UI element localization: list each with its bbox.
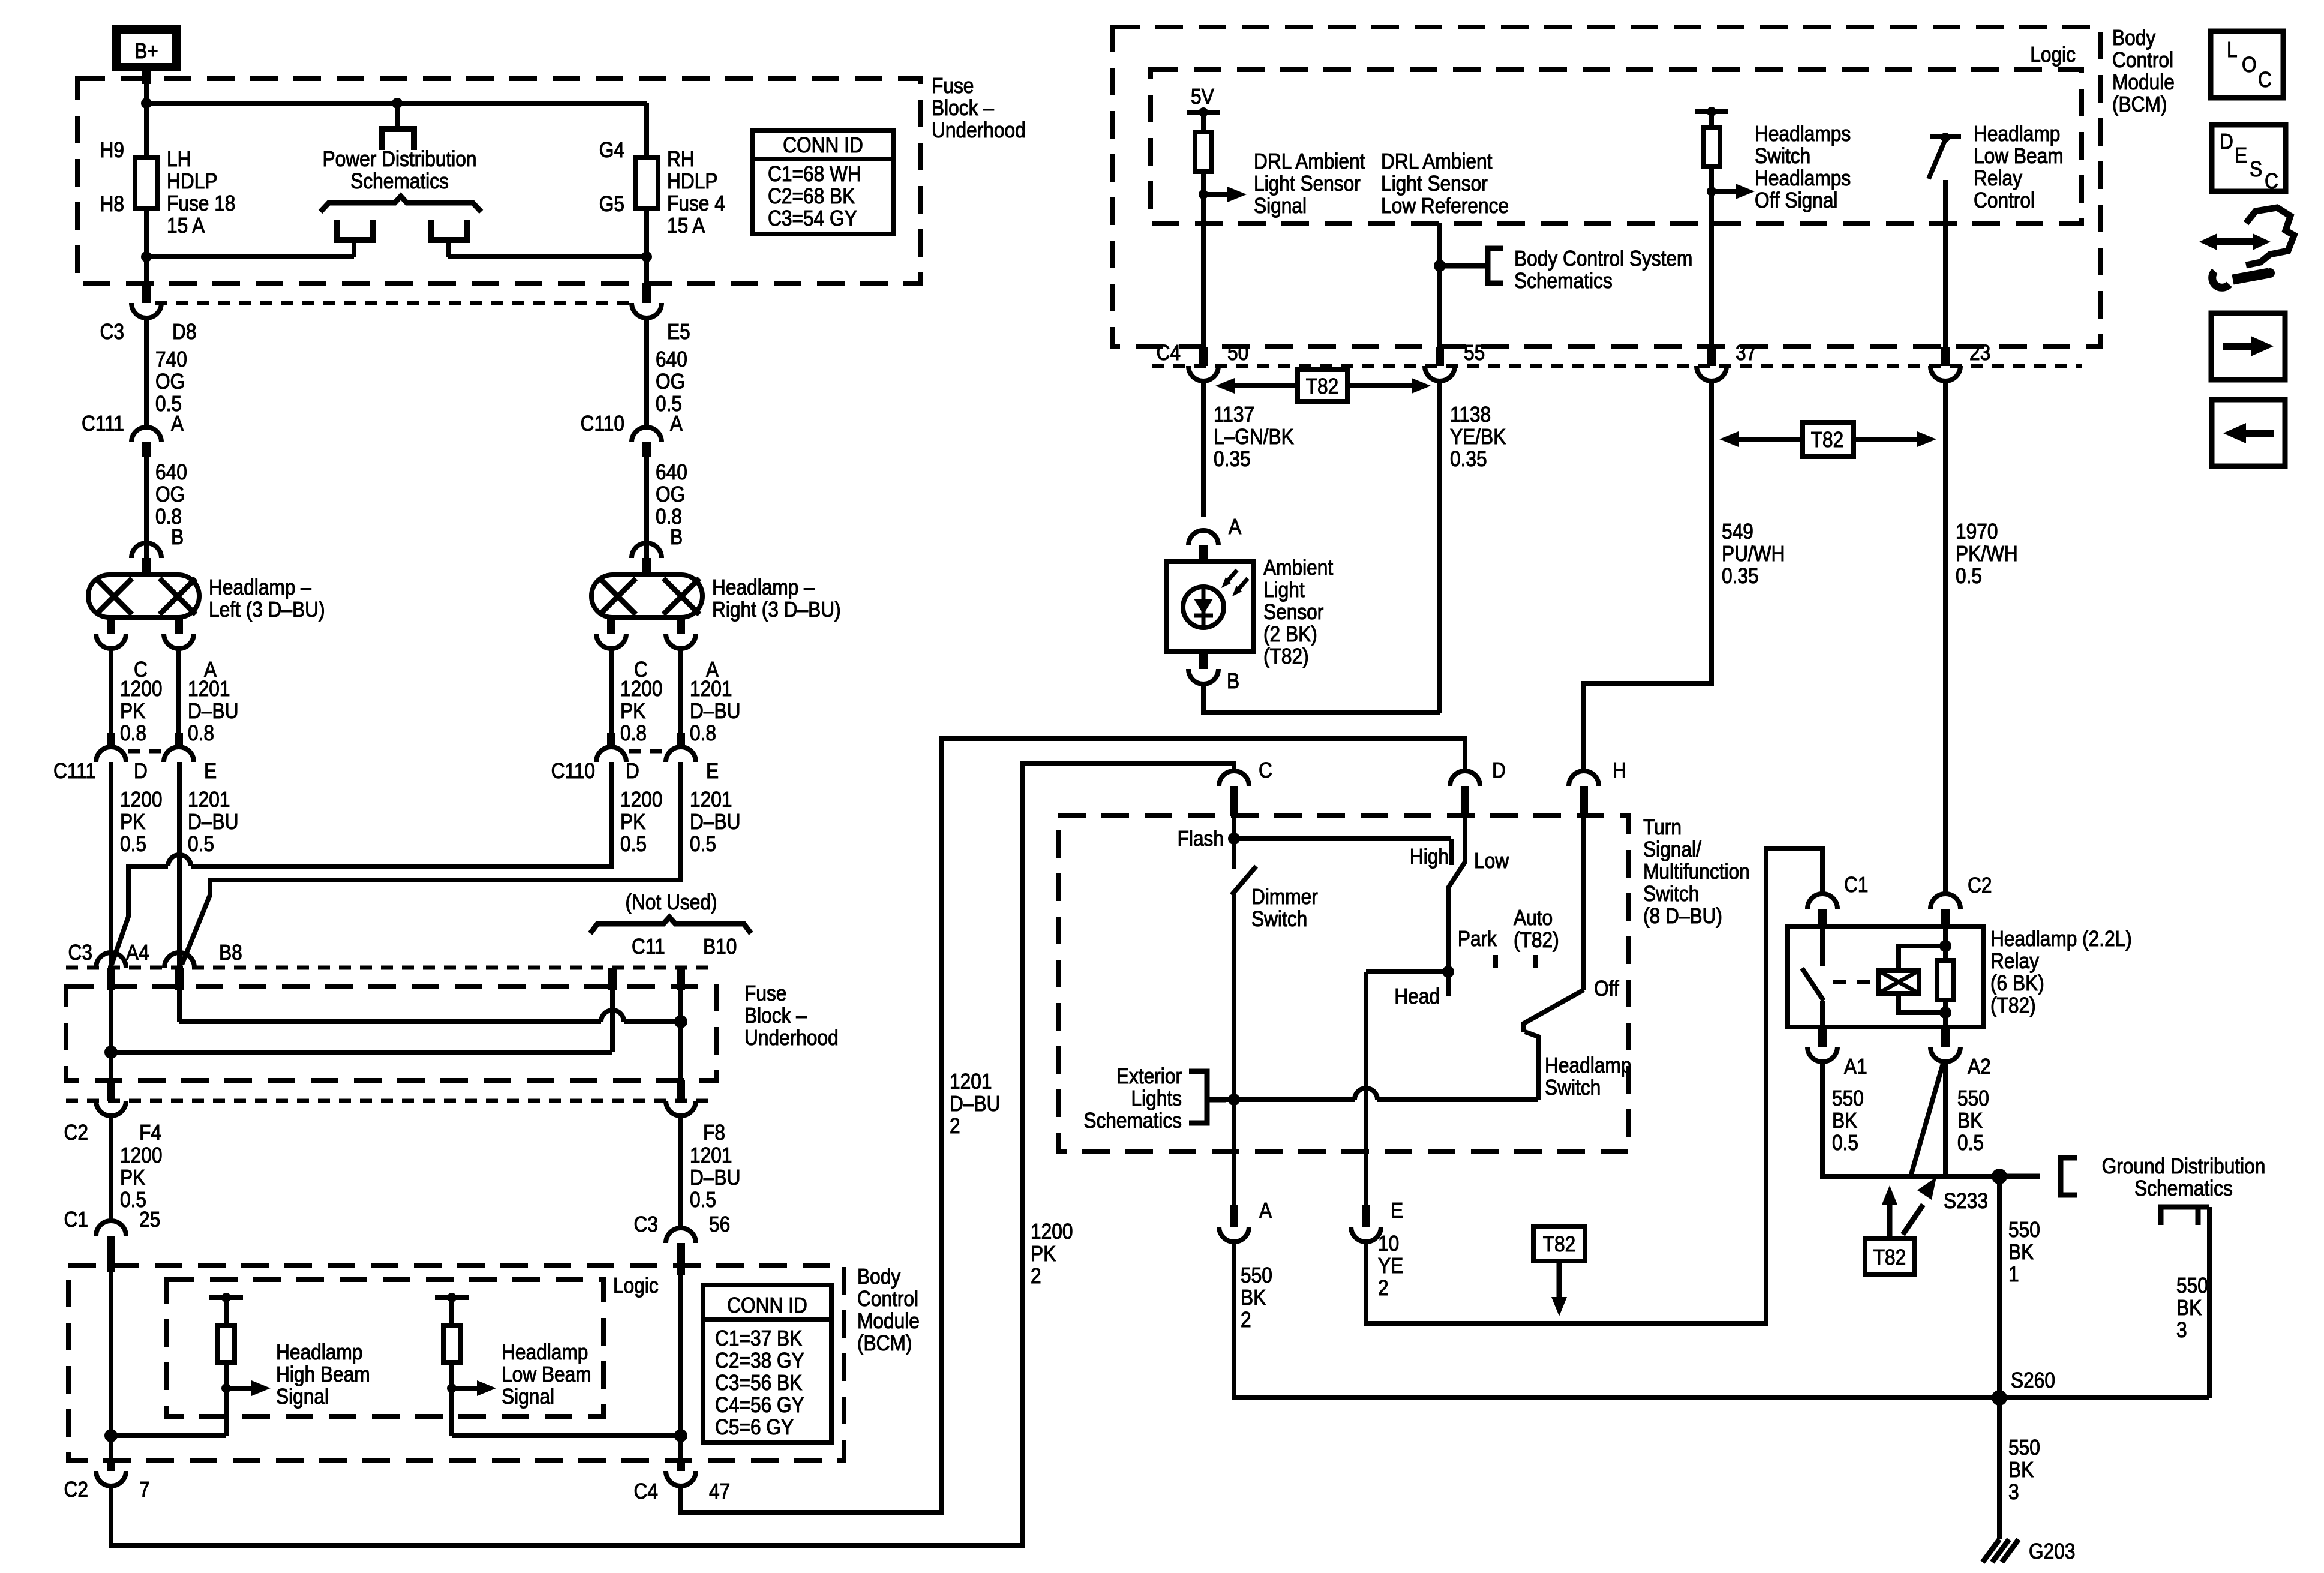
- svg-text:0.8: 0.8: [120, 721, 146, 745]
- svg-text:Lights: Lights: [1131, 1086, 1182, 1110]
- svg-text:A: A: [171, 412, 184, 436]
- svg-text:640: 640: [656, 460, 687, 484]
- svg-text:BK: BK: [1241, 1286, 1266, 1310]
- wire 550 BK 3 to ground: [1999, 1398, 2040, 1539]
- svg-text:(6 BK): (6 BK): [1990, 971, 2044, 995]
- svg-text:37: 37: [1736, 341, 1756, 365]
- svg-text:(BCM): (BCM): [857, 1331, 912, 1355]
- svg-text:S: S: [2250, 157, 2262, 181]
- headlamp switch label: [1545, 1053, 1631, 1100]
- svg-text:Headlamp: Headlamp: [1974, 122, 2060, 146]
- svg-text:0.5: 0.5: [1957, 1131, 1984, 1155]
- wire bus to RH fuse: [644, 103, 649, 158]
- conn id table bcm: [703, 1285, 831, 1443]
- svg-text:Ambient: Ambient: [1263, 556, 1334, 580]
- wire right D-BU to fuse block B8: [182, 762, 681, 965]
- svg-text:BK: BK: [1957, 1109, 1983, 1133]
- wire flash contact: [1228, 816, 1240, 869]
- connector C2 relay: [1930, 873, 1992, 927]
- wire A2 to splice: [1943, 1062, 1948, 1176]
- forward arrow icon: [2211, 313, 2285, 380]
- svg-text:Right (3 D–BU): Right (3 D–BU): [712, 598, 841, 622]
- relay linkage dashes: [1833, 980, 1872, 984]
- svg-text:OG: OG: [155, 370, 185, 394]
- svg-text:Body Control System: Body Control System: [1514, 247, 1692, 271]
- wire right PK to fuse block A4: [112, 762, 611, 965]
- svg-text:T82: T82: [1543, 1232, 1576, 1256]
- svg-text:C: C: [1259, 758, 1272, 782]
- svg-text:(T82): (T82): [1263, 644, 1309, 668]
- svg-text:1201: 1201: [690, 1143, 732, 1167]
- relay coil: [1878, 927, 1951, 1013]
- svg-text:Exterior: Exterior: [1116, 1064, 1182, 1088]
- svg-text:C2: C2: [64, 1478, 88, 1502]
- connector C111 face dashes: [128, 749, 164, 754]
- svg-text:PK: PK: [1031, 1242, 1056, 1266]
- headlamp left bulb symbol: [88, 575, 199, 617]
- label B10: [703, 935, 737, 959]
- svg-text:1200: 1200: [120, 1143, 162, 1167]
- connector C110 pin E: [666, 733, 719, 783]
- svg-text:PK: PK: [620, 699, 646, 723]
- svg-text:0.5: 0.5: [690, 1188, 716, 1212]
- svg-text:PK: PK: [120, 1166, 146, 1190]
- svg-text:OG: OG: [155, 482, 185, 506]
- power distribution schematics reference: [320, 103, 481, 257]
- svg-text:15 A: 15 A: [167, 214, 205, 238]
- svg-text:Fuse: Fuse: [932, 74, 974, 98]
- svg-text:0.5: 0.5: [690, 832, 716, 856]
- t82 reference down arrow: [1533, 1226, 1585, 1316]
- svg-text:B: B: [670, 525, 683, 549]
- bcm logic dashed box upper: [1151, 43, 2082, 223]
- svg-text:C5=6 GY: C5=6 GY: [715, 1415, 794, 1439]
- svg-text:Headlamp –: Headlamp –: [712, 575, 815, 599]
- wire B8 to F8 inside fuse block: [179, 990, 681, 1101]
- svg-text:Signal: Signal: [276, 1385, 329, 1409]
- svg-text:C3: C3: [634, 1212, 658, 1236]
- bump exterior bus over E wire: [1355, 1088, 1377, 1100]
- wire dimmer common down: [1232, 893, 1236, 1152]
- svg-text:Signal/: Signal/: [1643, 837, 1701, 861]
- svg-text:Switch: Switch: [1643, 882, 1699, 906]
- connector C2 pin F4: [64, 1080, 161, 1145]
- svg-text:0.5: 0.5: [1956, 564, 1982, 588]
- junction below LH fuse: [141, 251, 152, 262]
- svg-text:1138: 1138: [1450, 403, 1491, 427]
- svg-text:Switch: Switch: [1251, 907, 1307, 931]
- svg-text:0.5: 0.5: [120, 832, 146, 856]
- headlamp high beam signal arrow: [221, 1340, 370, 1409]
- connector A4 arc: [96, 953, 126, 990]
- svg-text:D–BU: D–BU: [188, 810, 238, 834]
- svg-text:CONN ID: CONN ID: [783, 133, 863, 157]
- headlamp low beam signal arrow: [447, 1340, 591, 1409]
- wire 740 OG 0.5: [146, 318, 187, 427]
- bump PK line over left D-BU wire: [168, 855, 191, 866]
- svg-text:(2 BK): (2 BK): [1263, 622, 1317, 646]
- svg-text:C110: C110: [551, 759, 595, 783]
- wire 550 BK 0.5 A2 label: [1957, 1086, 1989, 1155]
- svg-text:DRL Ambient: DRL Ambient: [1254, 149, 1365, 173]
- svg-text:D8: D8: [172, 320, 196, 344]
- wire 1201 D-BU 0.5 left: [179, 762, 238, 966]
- junction at LH fuse tap: [141, 98, 152, 109]
- relay contact switch: [1802, 927, 1824, 1027]
- ambient light sensor label: [1263, 556, 1334, 668]
- svg-text:HDLP: HDLP: [667, 169, 717, 193]
- svg-text:C111: C111: [53, 759, 96, 783]
- svg-text:740: 740: [155, 347, 187, 371]
- wire 550 BK 3 right: [2176, 1207, 2209, 1398]
- svg-text:D: D: [2220, 130, 2233, 154]
- svg-text:Body: Body: [857, 1265, 900, 1289]
- label auto T82 and tick: [1514, 906, 1559, 968]
- wire 640 OG 0.8 left: [146, 457, 187, 562]
- svg-text:Ground Distribution: Ground Distribution: [2102, 1154, 2266, 1178]
- svg-text:1970: 1970: [1956, 520, 1998, 544]
- svg-text:Fuse 18: Fuse 18: [167, 191, 235, 215]
- exterior lights schematics reference: [1083, 1064, 1226, 1133]
- ground distribution schematics reference 2: [2161, 1207, 2209, 1225]
- svg-text:A1: A1: [1844, 1055, 1867, 1079]
- label flash: [1178, 827, 1224, 851]
- fuse block 2 lower connector face dotted line: [66, 1099, 717, 1103]
- svg-text:Park: Park: [1458, 927, 1497, 951]
- connector C111 pin D: [53, 733, 148, 783]
- svg-text:(8 D–BU): (8 D–BU): [1643, 904, 1722, 928]
- svg-text:E: E: [706, 759, 719, 783]
- bcm logic dashed box lower: [167, 1274, 659, 1416]
- headlamp relay box: [1788, 927, 1984, 1027]
- svg-text:PK/WH: PK/WH: [1956, 542, 2018, 566]
- svg-text:C3: C3: [100, 320, 124, 344]
- body control module dashed box lower: [68, 1265, 844, 1461]
- wire 550 BK 2: [1234, 1242, 1998, 1398]
- svg-text:Signal: Signal: [1254, 194, 1307, 218]
- svg-text:1201: 1201: [690, 788, 732, 812]
- svg-text:Logic: Logic: [613, 1274, 659, 1298]
- svg-text:Underhood: Underhood: [744, 1026, 839, 1050]
- svg-text:OG: OG: [656, 482, 685, 506]
- svg-text:23: 23: [1969, 341, 1990, 365]
- connector B left headlamp: [131, 543, 161, 575]
- connector C110 pin D: [551, 733, 639, 783]
- not used bracket: [590, 890, 751, 933]
- svg-text:L: L: [2227, 38, 2238, 62]
- svg-text:C: C: [2265, 169, 2278, 193]
- stub C11 not used: [608, 968, 617, 990]
- svg-text:C1: C1: [1844, 873, 1868, 897]
- svg-text:Schematics: Schematics: [350, 169, 449, 193]
- svg-text:0.8: 0.8: [620, 721, 647, 745]
- connector C turn signal: [1219, 758, 1272, 816]
- svg-text:10: 10: [1378, 1232, 1399, 1256]
- wire 1201 D-BU 0.8 right: [681, 649, 740, 745]
- svg-text:3: 3: [2008, 1480, 2019, 1504]
- dimmer switch label: [1251, 885, 1318, 931]
- t82 twisted pair arrow 50-55: [1215, 370, 1431, 401]
- svg-text:D–BU: D–BU: [690, 1166, 740, 1190]
- splice diagonal A1 A2: [1911, 1064, 1943, 1176]
- svg-text:C3: C3: [68, 941, 92, 965]
- wire 1201 D-BU 0.5 right label: [690, 788, 740, 856]
- connector C2 pin 7: [64, 1461, 150, 1502]
- svg-text:1201: 1201: [690, 677, 732, 701]
- svg-text:PK: PK: [120, 699, 146, 723]
- headlamps switch off signal arrow: [1707, 184, 1755, 199]
- svg-text:CONN ID: CONN ID: [727, 1293, 807, 1317]
- svg-text:50: 50: [1227, 341, 1248, 365]
- svg-text:Schematics: Schematics: [2134, 1176, 2233, 1200]
- svg-text:B: B: [171, 525, 184, 549]
- svg-text:549: 549: [1722, 520, 1753, 544]
- label high: [1410, 845, 1449, 869]
- bump B8 wire over C11 leg: [601, 1010, 624, 1022]
- connector C110 face dashes: [629, 749, 665, 754]
- svg-text:Schematics: Schematics: [1514, 269, 1613, 293]
- headlamp right bulb symbol: [591, 575, 702, 617]
- right headlamp pin C stub: [596, 617, 648, 682]
- wire A1 to splice: [1822, 1062, 2026, 1176]
- wire 1138 YE/BK 0.35: [1440, 381, 1506, 713]
- svg-text:BK: BK: [2008, 1240, 2034, 1264]
- svg-text:T82: T82: [1811, 428, 1844, 452]
- right headlamp pin A stub: [666, 617, 719, 682]
- wire sensor B to low reference: [1203, 684, 1440, 713]
- fuse LH HDLP Fuse 18 15A: [100, 138, 236, 238]
- svg-text:S260: S260: [2011, 1368, 2055, 1392]
- svg-text:(Not Used): (Not Used): [625, 890, 717, 914]
- bcm label upper: [2112, 26, 2175, 116]
- svg-text:550: 550: [2008, 1436, 2040, 1460]
- connector pin 55: [1425, 341, 1485, 381]
- connector A1 relay: [1807, 1027, 1867, 1079]
- svg-text:Dimmer: Dimmer: [1251, 885, 1318, 909]
- wire exterior lights bus: [1226, 1094, 1538, 1106]
- connector C111 pin E: [164, 733, 217, 783]
- splice S233: [1944, 1169, 2007, 1213]
- svg-text:Low: Low: [1474, 849, 1509, 873]
- connector C2 pin F8: [666, 1080, 725, 1145]
- dimmer switch arm: [1232, 866, 1256, 895]
- wire 1200 PK 0.5 left: [111, 762, 162, 971]
- svg-text:Head: Head: [1394, 984, 1440, 1008]
- headlamp switch head contact: [1525, 1032, 1538, 1100]
- connector C3 row labels: [68, 941, 242, 965]
- svg-text:High Beam: High Beam: [276, 1362, 370, 1386]
- svg-text:550: 550: [2008, 1218, 2040, 1242]
- svg-text:1: 1: [2008, 1262, 2019, 1286]
- svg-text:C4: C4: [1157, 341, 1181, 365]
- svg-text:C1=68 WH: C1=68 WH: [768, 162, 861, 186]
- svg-text:C3=56 BK: C3=56 BK: [715, 1371, 803, 1395]
- label off: [1594, 977, 1619, 1001]
- t82 reference arrows at s233: [1865, 1177, 1936, 1275]
- svg-text:G203: G203: [2029, 1539, 2075, 1563]
- connector A2 relay: [1930, 1027, 1991, 1079]
- back arrow icon: [2212, 400, 2285, 466]
- svg-text:Fuse 4: Fuse 4: [667, 191, 725, 215]
- svg-text:D–BU: D–BU: [188, 699, 238, 723]
- svg-text:1200: 1200: [620, 788, 662, 812]
- headlamp right label: [712, 575, 841, 622]
- wire 1970 PK/WH 0.5: [1945, 381, 2018, 894]
- connector A turn signal: [1219, 1199, 1272, 1242]
- svg-text:2: 2: [1378, 1276, 1389, 1300]
- fuse block connector face dotted line: [155, 301, 632, 305]
- svg-text:Underhood: Underhood: [932, 118, 1026, 142]
- svg-text:T82: T82: [1306, 374, 1339, 398]
- wire 1201 D-BU 0.8 left: [179, 649, 238, 745]
- svg-text:0.8: 0.8: [690, 721, 716, 745]
- wire 1200 PK 0.8 left: [111, 649, 162, 745]
- turn signal switch label: [1643, 815, 1750, 928]
- svg-text:0.8: 0.8: [188, 721, 214, 745]
- svg-text:D–BU: D–BU: [950, 1092, 1000, 1116]
- svg-text:5V: 5V: [1191, 85, 1214, 109]
- svg-text:H: H: [1613, 758, 1626, 782]
- svg-text:C3=54 GY: C3=54 GY: [768, 206, 857, 230]
- svg-text:Light: Light: [1263, 578, 1305, 602]
- svg-text:YE: YE: [1378, 1254, 1403, 1278]
- wire LH fuse to C3 connector: [144, 208, 149, 303]
- svg-text:C1=37 BK: C1=37 BK: [715, 1326, 803, 1350]
- svg-text:Turn: Turn: [1643, 815, 1682, 839]
- svg-text:Auto: Auto: [1514, 906, 1553, 930]
- svg-text:BK: BK: [1832, 1109, 1858, 1133]
- wire 640 OG 0.8 right: [647, 457, 687, 562]
- svg-text:1201: 1201: [950, 1070, 992, 1094]
- connector C1 pin 25: [64, 1208, 161, 1272]
- svg-text:C2=38 GY: C2=38 GY: [715, 1349, 804, 1373]
- svg-text:Relay: Relay: [1990, 949, 2039, 973]
- svg-text:Module: Module: [857, 1309, 920, 1333]
- headlamp low beam signal resistor: [435, 1293, 469, 1436]
- headlamp high beam signal resistor: [209, 1293, 243, 1436]
- svg-text:(BCM): (BCM): [2112, 92, 2167, 116]
- wire 550 BK 1: [1999, 1176, 2040, 1398]
- connector C4 pin 47: [634, 1461, 731, 1503]
- ambient light sensor photodiode: [1183, 570, 1248, 629]
- svg-text:Switch: Switch: [1545, 1076, 1601, 1100]
- svg-text:B8: B8: [219, 941, 242, 965]
- relay label: [1990, 927, 2132, 1017]
- wire 1201 D-BU 2 route: [681, 739, 1465, 1512]
- svg-text:L–GN/BK: L–GN/BK: [1214, 425, 1294, 449]
- fuse block 2 dashed box: [66, 987, 717, 1080]
- svg-text:E: E: [2235, 143, 2247, 167]
- connector C4 pin 50: [1157, 341, 1249, 381]
- svg-text:Headlamps: Headlamps: [1755, 122, 1851, 146]
- svg-text:A: A: [670, 412, 683, 436]
- bus wire inside fuse block: [146, 101, 647, 106]
- wire 1200 PK 0.5 to BCM: [111, 1116, 162, 1221]
- connector C1 relay: [1807, 873, 1868, 927]
- svg-text:BK: BK: [2176, 1296, 2202, 1320]
- svg-text:Headlamp: Headlamp: [1545, 1053, 1631, 1077]
- svg-text:C2: C2: [64, 1121, 88, 1145]
- wire 550 BK 0.5 A1 label: [1832, 1086, 1864, 1155]
- svg-text:Power Distribution: Power Distribution: [323, 147, 477, 171]
- svg-text:A: A: [1229, 515, 1241, 539]
- svg-text:DRL Ambient: DRL Ambient: [1381, 149, 1493, 173]
- svg-text:F4: F4: [139, 1121, 161, 1145]
- svg-text:B+: B+: [134, 39, 158, 63]
- svg-text:550: 550: [1832, 1086, 1864, 1110]
- wire 640 OG 0.5 right: [647, 318, 687, 427]
- svg-text:O: O: [2242, 53, 2257, 77]
- svg-text:Flash: Flash: [1178, 827, 1224, 851]
- svg-text:C111: C111: [82, 412, 124, 436]
- desc icon: [2212, 125, 2286, 193]
- svg-text:0.35: 0.35: [1450, 447, 1487, 471]
- svg-text:640: 640: [155, 460, 187, 484]
- svg-text:D: D: [134, 759, 148, 783]
- connector D turn signal: [1450, 758, 1506, 816]
- connector H turn signal: [1569, 758, 1626, 816]
- fuse block 2 connector face dotted line: [66, 966, 717, 970]
- svg-text:Schematics: Schematics: [1083, 1109, 1182, 1133]
- wire 1200 PK 0.8 right: [611, 649, 662, 745]
- svg-text:E: E: [1391, 1199, 1403, 1223]
- svg-text:C110: C110: [581, 412, 624, 436]
- svg-text:1137: 1137: [1214, 403, 1254, 427]
- wire 549 PU/WH 0.35: [1584, 381, 1785, 771]
- svg-text:H9: H9: [100, 138, 124, 162]
- label low: [1474, 849, 1509, 873]
- svg-text:1201: 1201: [188, 788, 230, 812]
- fuse RH HDLP Fuse 4 15A: [599, 138, 725, 238]
- svg-text:LH: LH: [167, 147, 191, 171]
- svg-text:Multifunction: Multifunction: [1643, 860, 1750, 884]
- svg-text:Block –: Block –: [744, 1004, 807, 1028]
- headlamp low beam relay control label: [1974, 122, 2064, 212]
- svg-text:Headlamp: Headlamp: [502, 1340, 588, 1364]
- svg-text:1200: 1200: [1031, 1220, 1073, 1244]
- headlamps off pullup resistor: [1695, 107, 1728, 347]
- svg-text:S233: S233: [1944, 1189, 1988, 1213]
- stub B10 not used: [677, 968, 685, 990]
- drl ambient light sensor low reference label: [1381, 149, 1509, 218]
- t82 twisted pair arrow 37-23: [1719, 422, 1936, 457]
- svg-text:0.35: 0.35: [1722, 564, 1759, 588]
- ground distribution schematics reference 1: [2007, 1154, 2265, 1200]
- wire E column down: [1364, 972, 1368, 1152]
- headlamps switch off signal label: [1755, 122, 1851, 212]
- ground G203: [1983, 1539, 2075, 1563]
- svg-text:15 A: 15 A: [667, 214, 705, 238]
- svg-text:Relay: Relay: [1974, 166, 2022, 190]
- wire high beam resistor to pin 25: [104, 1429, 226, 1442]
- svg-text:A: A: [1259, 1199, 1272, 1223]
- connector C110 pin A: [581, 412, 683, 457]
- svg-text:C: C: [2258, 68, 2272, 92]
- head contact stub: [1446, 972, 1451, 996]
- loc icon: [2211, 31, 2283, 98]
- svg-text:Off: Off: [1594, 977, 1619, 1001]
- svg-text:Switch: Switch: [1755, 144, 1810, 168]
- wire B+ to fuse block bus: [142, 67, 151, 158]
- svg-text:D–BU: D–BU: [690, 699, 740, 723]
- connector C3 pin 56: [634, 1212, 731, 1275]
- svg-text:640: 640: [656, 347, 687, 371]
- wire low beam resistor to pin 56: [452, 1429, 687, 1442]
- wire A stub: [1232, 1152, 1236, 1205]
- wire E stub: [1364, 1152, 1368, 1205]
- bcm connector face dotted line: [1152, 364, 2082, 368]
- svg-text:G5: G5: [599, 192, 624, 216]
